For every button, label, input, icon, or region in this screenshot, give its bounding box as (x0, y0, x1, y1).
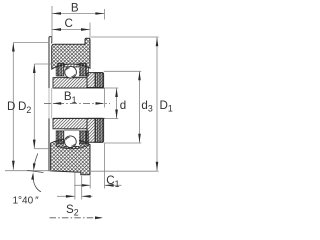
svg-text:D: D (7, 100, 15, 113)
svg-text:1°40 ″: 1°40 ″ (13, 196, 40, 207)
svg-text:B: B (71, 1, 79, 14)
svg-text:C: C (65, 17, 73, 30)
svg-text:d: d (120, 99, 126, 112)
